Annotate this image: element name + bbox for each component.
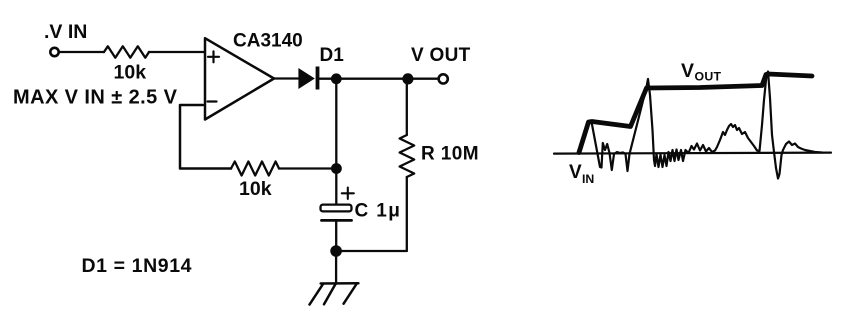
svg-text:V OUT: V OUT <box>411 45 471 66</box>
svg-text:R 10M: R 10M <box>421 144 479 165</box>
svg-text:C 1μ: C 1μ <box>355 201 402 222</box>
svg-text:10k: 10k <box>114 62 147 84</box>
svg-text:CA3140: CA3140 <box>233 31 303 52</box>
svg-text:V: V <box>681 60 694 82</box>
svg-text:D1 = 1N914: D1 = 1N914 <box>82 255 193 277</box>
svg-text:OUT: OUT <box>695 70 722 84</box>
svg-text:.V IN: .V IN <box>44 21 87 43</box>
svg-text:D1: D1 <box>320 45 345 66</box>
svg-text:10k: 10k <box>239 178 272 200</box>
svg-text:MAX V IN ± 2.5 V: MAX V IN ± 2.5 V <box>13 87 178 109</box>
svg-text:IN: IN <box>582 172 594 186</box>
svg-text:V: V <box>569 162 582 183</box>
